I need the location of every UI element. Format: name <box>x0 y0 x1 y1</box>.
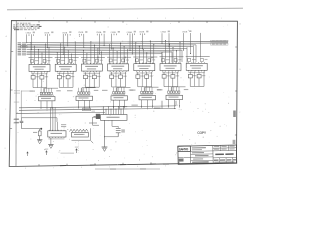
left edge signal labels bottom <box>14 119 19 124</box>
ground G0 <box>48 144 53 148</box>
svg-text:COPY: COPY <box>197 131 207 135</box>
label box on wire left of MCU <box>83 108 91 111</box>
svg-text:CN1B: CN1B <box>44 32 50 34</box>
notes text block <box>13 23 41 31</box>
bus junction dots <box>26 42 191 55</box>
IC8 pin ticks <box>50 130 65 138</box>
latch cluster IC9 group <box>67 88 98 109</box>
bottom border emphasis dashes <box>60 164 169 166</box>
wire IC8 to ground <box>50 138 52 144</box>
drawing title text <box>215 153 224 155</box>
connector CN1 label box left <box>21 45 27 47</box>
long horizontal wires control bus <box>16 106 176 114</box>
right column grid <box>213 147 237 149</box>
test point arrow TP1 <box>45 149 48 155</box>
bus terminus labels right <box>211 40 229 45</box>
test point arrow TP2 <box>75 147 78 153</box>
middle column rows <box>190 150 212 152</box>
driver cell IC1 group <box>29 42 53 88</box>
ground G2 <box>102 147 108 151</box>
connector pin wires into bus <box>27 33 201 58</box>
zone numbers below bottom border <box>25 166 167 170</box>
RN1 right wire loop <box>72 128 94 143</box>
ceramic resonator CF1 <box>116 129 121 137</box>
IC10 microcontroller box <box>101 115 128 121</box>
zone ticks bottom border <box>39 162 179 166</box>
wire long vertical left rail <box>15 21 17 166</box>
svg-text:CN4A: CN4A <box>127 31 133 34</box>
wire IC10 pin to resonator <box>112 120 118 128</box>
svg-text:CN5B: CN5B <box>182 31 188 33</box>
svg-text:CN2B: CN2B <box>78 32 84 34</box>
wire top rail of analog cluster <box>22 118 58 122</box>
driver cell IC3 group <box>81 41 105 87</box>
driver cell IC4 group <box>107 43 131 87</box>
latch cluster IC12 group <box>157 87 188 108</box>
left edge signal label lower <box>14 102 19 103</box>
crystal X1 <box>94 114 101 119</box>
title block vertical dividers <box>189 146 191 164</box>
svg-text:SANYO: SANYO <box>179 147 189 151</box>
resistor R1 <box>38 129 41 140</box>
RN1 box <box>72 132 89 137</box>
zone ticks right border <box>235 47 237 135</box>
C1 labels <box>14 119 19 124</box>
wire C1 to R1 <box>22 128 43 130</box>
faint annotation under cluster <box>61 153 75 154</box>
IC10 pin junction dots <box>103 106 124 110</box>
R1 label <box>33 132 37 133</box>
svg-text:CN1A: CN1A <box>26 32 32 35</box>
zone ticks left border <box>10 52 13 129</box>
zone letters left margin <box>5 35 8 150</box>
faint stamp row below border <box>95 168 160 169</box>
zone letters right margin <box>239 23 241 115</box>
test point arrow TP3 <box>26 151 28 156</box>
wire IC10 left side <box>93 117 101 125</box>
paper top edge <box>7 8 243 10</box>
left edge signal labels mid <box>14 90 33 93</box>
left column rows <box>178 157 190 159</box>
wire corner at right end of control bus <box>162 101 176 109</box>
bus line end drops into cells <box>162 45 196 62</box>
wire number annotations <box>97 57 153 59</box>
drawing border frame <box>9 21 237 167</box>
svg-text:CN3B: CN3B <box>111 32 117 34</box>
latch cluster IC8 group <box>30 88 61 109</box>
svg-text:CN2A: CN2A <box>62 31 68 34</box>
driver cell IC7 group <box>186 45 210 86</box>
X1 annotation <box>89 111 97 124</box>
wire second left rail lower <box>20 91 22 118</box>
wire resonator to ground rail <box>104 136 118 137</box>
bus signal name labels left <box>18 42 26 55</box>
annotation beside IC8 <box>61 124 66 127</box>
driver cell IC6 group <box>160 40 184 86</box>
title block group <box>178 145 237 164</box>
resistor network RN1 zigzag <box>70 129 89 131</box>
logo box <box>178 146 191 152</box>
svg-text:CN4B: CN4B <box>139 32 145 34</box>
revision note right margin <box>233 111 236 145</box>
driver cell IC2 group <box>55 42 79 88</box>
capacitor C1 <box>20 118 24 129</box>
title block outline <box>178 145 237 164</box>
wire drops into IC8 amp <box>51 107 58 130</box>
zone numbers above top border <box>25 18 223 20</box>
IC8 analog box <box>48 131 66 137</box>
driver cell IC5 group <box>133 40 157 86</box>
IC8 pin number row <box>48 137 64 140</box>
connector designation labels top row <box>26 30 192 34</box>
svg-text:CN5A: CN5A <box>161 31 167 34</box>
latch cluster IC11 group <box>130 87 161 108</box>
ground G1 <box>37 140 42 144</box>
data bus horizontal lines <box>27 41 229 54</box>
right column bottom row <box>213 156 237 158</box>
svg-text:CN3A: CN3A <box>96 31 102 34</box>
scan speckle texture <box>15 23 236 165</box>
zone ticks top border <box>39 21 207 23</box>
wire drops cluster to bus junctions <box>41 105 181 110</box>
IC10 top pin wires <box>104 107 124 115</box>
wire labels on control bus <box>120 105 161 109</box>
faint dashed test wire <box>77 141 79 152</box>
wire IC10 pin down long <box>104 120 106 147</box>
latch cluster IC10 group <box>102 87 133 108</box>
CF1 value label <box>121 129 125 132</box>
